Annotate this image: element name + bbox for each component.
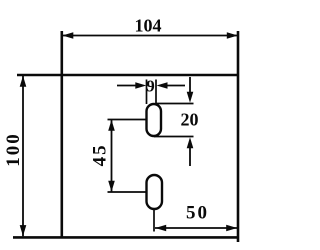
- dimension 45 bottom extension line: [108, 191, 147, 193]
- dimension line 100: [22, 76, 24, 237]
- plate left edge (extends up as 104 extension line): [60, 31, 63, 238]
- dimension 20 top extension line: [156, 103, 194, 105]
- plate right edge (extends up as 104 extension line): [237, 31, 240, 242]
- slot hole bottom: [147, 175, 163, 209]
- svg-text:104: 104: [135, 16, 162, 36]
- svg-text:9: 9: [146, 77, 155, 96]
- dimension line 104: [63, 35, 238, 37]
- plate bottom edge (with left extension for 100 dim): [13, 236, 239, 239]
- dimension 9 extension line right: [155, 80, 157, 105]
- plate top edge (with left extension for 100 dim): [17, 74, 239, 77]
- dimension 20 bottom extension line: [154, 136, 194, 138]
- dimension line 45: [111, 120, 113, 192]
- dimension 9 right arrow: [157, 82, 168, 89]
- svg-text:50: 50: [186, 203, 209, 224]
- slot hole top: [147, 104, 162, 136]
- dimension 9 extension line left: [146, 80, 148, 105]
- dimension line 50: [155, 227, 237, 229]
- svg-text:45: 45: [90, 143, 111, 166]
- svg-text:20: 20: [181, 110, 199, 130]
- dimension 9 left arrow: [117, 85, 137, 87]
- dimension 45 top extension line: [108, 119, 147, 121]
- centerline below bottom slot: [153, 209, 155, 232]
- svg-text:100: 100: [3, 132, 24, 167]
- dimension 20 bottom arrow (points up): [187, 137, 194, 148]
- dimension 20 top arrow (points down): [189, 77, 191, 93]
